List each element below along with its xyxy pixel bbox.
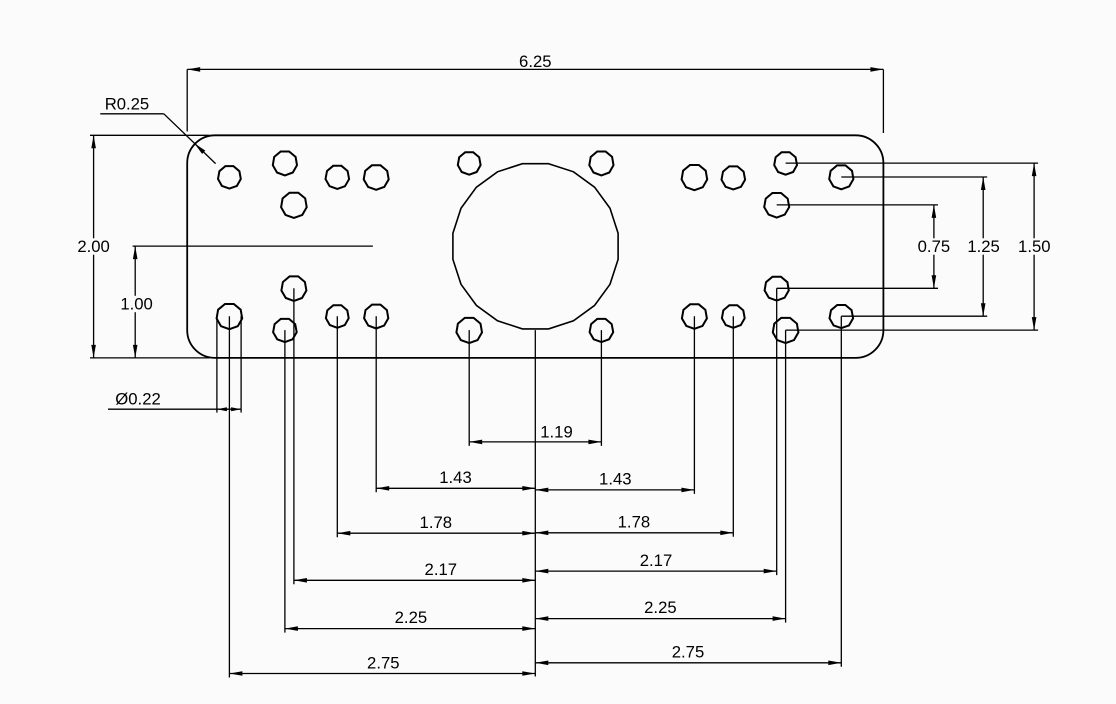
plate outline (187, 135, 883, 358)
svg-text:2.25: 2.25 (395, 608, 427, 627)
dimension 2.25 right (535, 330, 785, 622)
dimension 2.75 right (535, 316, 841, 667)
dimension 6.25 (plate width) (187, 52, 883, 133)
svg-text:1.78: 1.78 (618, 513, 650, 532)
svg-text:1.43: 1.43 (599, 469, 631, 488)
hole H10 Ø0.22 at (776.7,204.9) (764, 193, 789, 218)
dimension 1.78 left (337, 316, 535, 537)
radius callout R0.25 (100, 95, 215, 164)
hole H3 Ø0.22 at (293.9,204.9) (281, 193, 307, 218)
svg-text:2.00: 2.00 (77, 237, 109, 256)
dimension 2.17 left (294, 288, 535, 584)
dimension 1.25 (mid hole rows) (841, 177, 1000, 316)
hole H1 Ø0.22 at (229.4,177.0) (218, 166, 241, 189)
hole H11 Ø0.22 at (785.6,163.1) (774, 152, 797, 175)
svg-text:1.19: 1.19 (540, 423, 572, 442)
hole H23 Ø0.22 at (785.6,330.1) (773, 318, 799, 343)
hole H13 Ø0.22 at (229.4,316.2) (217, 304, 243, 329)
hole H2 Ø0.22 at (284.9,163.1) (273, 152, 297, 176)
hole H21 Ø0.22 at (733.3,316.2) (722, 305, 745, 328)
svg-text:0.75: 0.75 (918, 237, 950, 256)
dimension 1.78 right (535, 316, 733, 537)
vertical centerline extension (534, 330, 536, 676)
hole H17 Ø0.22 at (376.2,316.2) (364, 305, 388, 329)
dimension 1.19 (innermost bottom holes) (469, 330, 601, 446)
dimension 1.00 (half height) (120, 246, 373, 358)
hole H6 Ø0.22 at (469.2,163.1) (458, 152, 481, 175)
hole diameter callout Ø0.22 (108, 316, 241, 412)
hole H16 Ø0.22 at (337.3,316.2) (326, 305, 349, 328)
hole H12 Ø0.22 at (841.3,177.0) (829, 165, 853, 189)
hole H9 Ø0.22 at (733.3,177.6) (722, 166, 746, 189)
svg-text:1.50: 1.50 (1018, 237, 1050, 256)
svg-text:Ø0.22: Ø0.22 (115, 390, 160, 409)
svg-text:2.25: 2.25 (644, 598, 676, 617)
center bore Ø1.50 (453, 164, 618, 329)
svg-text:2.17: 2.17 (640, 551, 672, 570)
svg-text:2.75: 2.75 (672, 643, 704, 662)
hole H5 Ø0.22 at (376.2,177.2) (364, 165, 389, 190)
svg-text:R0.25: R0.25 (105, 95, 150, 114)
svg-text:1.25: 1.25 (967, 237, 999, 256)
dimension 2.00 (plate height) (77, 135, 209, 358)
dimension 2.75 left (229, 316, 535, 677)
svg-text:6.25: 6.25 (519, 52, 551, 71)
svg-text:1.43: 1.43 (439, 468, 471, 487)
dimension 2.17 right (535, 288, 776, 575)
svg-text:1.78: 1.78 (420, 513, 452, 532)
hole H24 Ø0.22 at (841.3,316.2) (830, 305, 854, 328)
hole H7 Ø0.22 at (601.4,163.1) (589, 152, 613, 176)
hole H18 Ø0.22 at (469.2,330.1) (456, 318, 482, 343)
hole H15 Ø0.22 at (293.9,288.3) (281, 276, 306, 301)
hole H14 Ø0.22 at (284.9,330.1) (273, 319, 297, 342)
dimension 1.50 (outer hole rows) (786, 163, 1051, 330)
dimension 1.43 right (535, 316, 694, 494)
dimension 1.43 left (376, 316, 535, 492)
hole H4 Ø0.22 at (337.3,177.0) (326, 166, 350, 189)
hole H19 Ø0.22 at (601.4,330.1) (590, 319, 614, 342)
svg-text:1.00: 1.00 (120, 295, 152, 314)
svg-text:2.17: 2.17 (425, 560, 457, 579)
dimension 0.75 (inner hole rows) (777, 205, 950, 288)
hole H8 Ø0.22 at (694.4,177.2) (682, 165, 708, 190)
dimension 2.25 left (285, 330, 535, 632)
svg-text:2.75: 2.75 (367, 654, 399, 673)
hole H22 Ø0.22 at (776.7,288.3) (765, 277, 789, 301)
hole H20 Ø0.22 at (694.4,316.2) (682, 304, 707, 329)
